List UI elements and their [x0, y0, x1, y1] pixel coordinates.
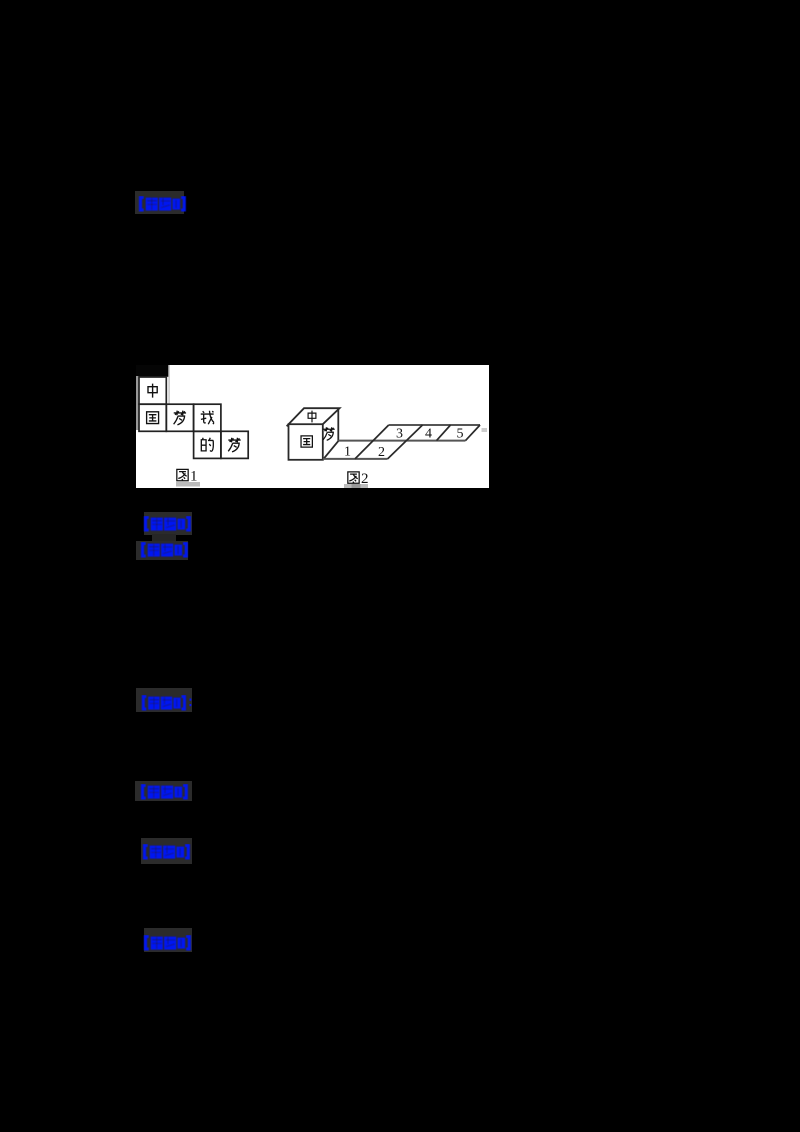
faint gray streak right of top cell — [168, 365, 170, 404]
label 2 blue marker — [142, 516, 193, 532]
cell 梦 row1 — [166, 404, 193, 431]
svg-text:4: 4 — [425, 427, 432, 442]
cube front face — [289, 424, 323, 460]
hanzi 的 in net — [201, 438, 213, 451]
label highlight box 1 — [135, 191, 184, 214]
svg-text:1: 1 — [190, 469, 198, 485]
label 4 blue marker — [140, 695, 194, 711]
problem figure image (white scan) — [135, 365, 489, 488]
label 6 blue marker — [141, 844, 192, 860]
hanzi 中 in net — [148, 384, 157, 398]
cell 中 — [139, 377, 166, 404]
svg-text:1: 1 — [344, 445, 351, 460]
white scan background — [136, 365, 489, 488]
strip right end slash — [466, 425, 481, 441]
gray bar left edge of net — [136, 376, 139, 430]
svg-text:2: 2 — [361, 471, 369, 487]
strip bottom edge — [323, 458, 388, 460]
label 3 blue marker — [139, 542, 190, 558]
cell 梦 row2 — [221, 431, 248, 458]
cube top face — [287, 408, 340, 426]
label highlight box 6 — [141, 838, 192, 864]
cell 我 — [194, 404, 221, 431]
slash between cells 1 and 2 — [355, 425, 389, 459]
hanzi 梦 on cube right — [323, 427, 335, 440]
label highlight box 7 — [144, 928, 192, 952]
hanzi 国 on cube front — [301, 436, 312, 447]
hanzi 我 in net — [201, 411, 214, 424]
cell 国 — [139, 404, 166, 431]
label highlight box 4 — [136, 688, 192, 712]
cell 的 — [194, 431, 221, 458]
label highlight box 2 — [144, 512, 192, 535]
label 7 blue marker — [142, 935, 193, 951]
hanzi 中 on cube top — [308, 411, 316, 423]
label 5 blue marker — [139, 784, 190, 800]
gray bridge between boxes 2 and 3 — [152, 534, 176, 543]
fig2 caption gray highlight — [344, 484, 368, 488]
label highlight box 5 — [135, 781, 192, 801]
hanzi 梦 in net row1 — [174, 411, 186, 425]
hanzi 梦 in net row2 — [228, 438, 240, 452]
slash between cells 2 and 3 — [388, 425, 423, 459]
cube right face back edge — [337, 408, 339, 440]
fig1 caption 图1 — [177, 469, 198, 485]
cube bottom depth edge — [323, 441, 339, 460]
gray smudge at strip right tip — [482, 428, 488, 432]
fig1 caption gray highlight — [176, 482, 200, 487]
svg-text:2: 2 — [378, 445, 385, 460]
strip of rhombi — [323, 425, 480, 459]
svg-text:3: 3 — [396, 427, 403, 442]
label highlight box 3 — [136, 541, 188, 560]
svg-text:5: 5 — [457, 427, 464, 442]
strip mid horizontal line — [339, 440, 466, 442]
net grid of fig1 — [139, 377, 248, 458]
fig2 caption 图2 — [348, 471, 369, 487]
strip top edge — [389, 424, 480, 426]
hanzi 国 in net — [147, 412, 159, 424]
slash between cells 4 and 5 — [437, 425, 451, 441]
cube of fig2 — [287, 408, 340, 460]
label 1 blue marker — [137, 196, 188, 212]
shared defs for blue label glyphs — [0, 0, 1, 1]
dark notch top-left of scan — [136, 365, 169, 377]
